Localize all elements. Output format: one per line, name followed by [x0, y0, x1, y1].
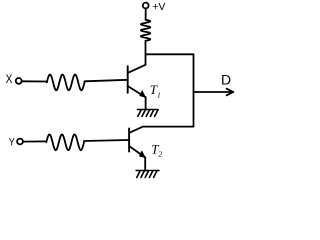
ground (T2 emitter) — [136, 171, 159, 178]
transistor T1 collector lead — [128, 41, 146, 73]
transistor T1 emitter arrowhead — [140, 91, 146, 98]
transistor T2 emitter arrowhead — [139, 151, 145, 158]
wire bus bottom to T2 collector — [143, 126, 194, 128]
svg-text:+V: +V — [152, 1, 165, 13]
wire collector node horizontal — [146, 53, 194, 55]
wire output D with arrow — [194, 91, 234, 93]
wire output bus vertical — [193, 54, 195, 126]
resistor R1 (X input) — [47, 75, 85, 91]
resistor RC (collector load) — [141, 20, 150, 41]
wire T2 emitter to ground — [144, 157, 146, 170]
wire +V to RC — [145, 9, 147, 20]
power terminal +V — [143, 3, 149, 9]
input terminal X — [16, 78, 22, 84]
wire X terminal to R1 — [22, 80, 47, 82]
transistor T1 emitter lead — [128, 86, 146, 97]
ground (T1 emitter) — [138, 110, 159, 117]
wire T1 emitter to ground — [145, 97, 147, 109]
resistor R2 (Y input) — [46, 134, 84, 150]
transistor T2 base bar — [128, 129, 130, 152]
wire R2 to T2 base — [84, 140, 129, 141]
svg-text:X: X — [6, 74, 13, 86]
transistor T1 base bar — [127, 66, 129, 93]
svg-text:T2: T2 — [151, 141, 162, 158]
svg-text:Y: Y — [9, 137, 16, 149]
input terminal Y — [17, 139, 23, 145]
svg-text:D: D — [221, 72, 231, 88]
svg-text:T1: T1 — [150, 82, 161, 99]
transistor T2 collector lead — [129, 127, 143, 133]
wire R1 to T1 base — [85, 80, 128, 82]
output arrowhead D — [227, 89, 234, 96]
transistor T2 emitter lead — [129, 146, 145, 157]
wire Y terminal to R2 — [23, 140, 46, 142]
